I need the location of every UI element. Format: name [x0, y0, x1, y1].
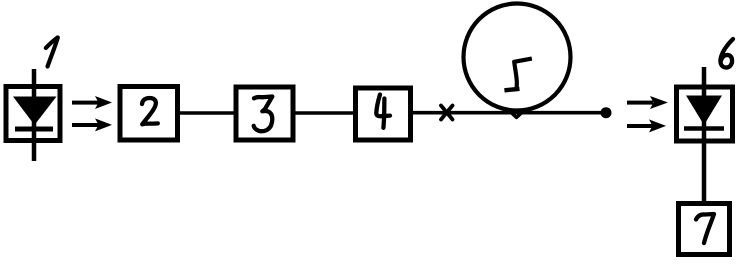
arrow A2	[72, 118, 112, 131]
wire box4 to detector dot	[411, 111, 604, 115]
box 2	[120, 87, 178, 141]
numeral 2	[142, 98, 158, 124]
box 6 (photodetector block)	[677, 87, 733, 141]
box 4	[356, 88, 411, 140]
wire vertical through box 6 down to box 7	[702, 67, 707, 203]
wire box3-box4	[293, 111, 357, 115]
label 1	[46, 38, 58, 67]
box 3	[236, 87, 293, 140]
numeral 3	[254, 97, 273, 132]
wire vertical through box 1	[32, 69, 37, 161]
label 6	[720, 39, 733, 68]
numeral 5	[507, 59, 530, 90]
numeral 7	[696, 214, 714, 243]
arrow A4	[627, 119, 666, 132]
loop crossing tail	[510, 112, 523, 118]
diode D2 (photodiode in box 6)	[686, 96, 722, 126]
numeral 4	[376, 95, 390, 128]
diode D1 (LED in box 1)	[13, 97, 57, 126]
box 7	[679, 204, 730, 255]
arrow A3	[627, 96, 668, 109]
box 1 (light source block)	[6, 87, 60, 141]
connector cross X	[441, 106, 453, 120]
node dot	[601, 107, 612, 118]
wire box2-box3	[178, 111, 236, 115]
arrow A1	[72, 96, 112, 109]
fiber coil (loop) 5	[464, 4, 571, 111]
